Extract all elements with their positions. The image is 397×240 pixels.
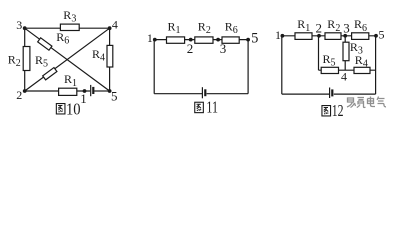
node 5 junction dot (circuit 1) <box>108 89 112 93</box>
battery long plate (circuit 1) <box>90 85 92 96</box>
wire right edge node5 down (circuit 3) <box>375 36 377 94</box>
resistor R6 (circuit 2) <box>222 37 239 43</box>
resistor R3 (circuit 1 top) <box>60 24 79 30</box>
resistor R2 (circuit 3) <box>325 33 341 40</box>
wire diagonal node3 to node5 (circuit 1) <box>25 28 110 91</box>
watermark 易觅电气 (grey) <box>347 97 386 108</box>
battery short plate (circuit 3) <box>331 89 333 96</box>
node 1 junction dot (circuit 3) <box>281 34 285 38</box>
svg-text:5: 5 <box>379 28 385 42</box>
resistor R5 (circuit 1 diagonal 2-4) <box>43 68 57 80</box>
wire bottom node2 to battery (circuit 1) <box>25 90 90 92</box>
wire left edge node1 down (circuit 3) <box>281 36 283 94</box>
node 3 junction dot (circuit 2) <box>216 38 220 42</box>
wire middle row node2 branch to node5 branch (circuit 3) <box>319 69 376 71</box>
node 2 junction dot (circuit 1) <box>23 89 27 93</box>
node 2 junction dot (circuit 3) <box>317 34 321 38</box>
resistor R6 (circuit 1 diagonal 3-5) <box>38 38 52 50</box>
wire right edge node4 to node5 (circuit 1) <box>109 28 111 91</box>
resistor R4 (circuit 1 right) <box>107 45 113 67</box>
battery long plate (circuit 3) <box>329 88 331 99</box>
svg-text:3: 3 <box>16 18 22 32</box>
node 1 junction dot (circuit 2) <box>153 38 157 42</box>
svg-text:2: 2 <box>316 20 323 35</box>
wire node3 down to R3 (circuit 3) <box>344 36 346 43</box>
battery short plate (circuit 2) <box>204 89 206 96</box>
caption 图12 (circuit 3) <box>322 101 344 120</box>
svg-text:12: 12 <box>332 101 344 120</box>
wire diagonal node2 to node4 (circuit 1) <box>25 28 110 91</box>
svg-text:5: 5 <box>111 88 118 103</box>
svg-text:3: 3 <box>220 41 227 56</box>
node 4 junction dot (circuit 1) <box>108 26 112 30</box>
resistor R3 vertical (circuit 3) <box>343 42 349 61</box>
caption 图10 (circuit 1) <box>56 100 80 119</box>
node 2 junction dot (circuit 2) <box>189 38 193 42</box>
battery long plate (circuit 2) <box>201 87 203 98</box>
wire top edge node1 to node5 (circuit 3) <box>282 35 376 37</box>
node 3 junction dot (circuit 3) <box>343 34 347 38</box>
resistor R1 (circuit 1 bottom) <box>59 88 77 95</box>
svg-text:4: 4 <box>341 69 347 83</box>
wire top edge node3 to node4 (circuit 1) <box>25 27 110 29</box>
wire bottom battery to right (circuit 2) <box>207 93 249 95</box>
caption 图11 (circuit 2) <box>195 97 218 116</box>
watermark char 易 <box>347 98 356 108</box>
svg-text:5: 5 <box>251 31 258 47</box>
wire left edge node3 to node2 (circuit 1) <box>24 28 26 91</box>
wire node2 down to middle row (circuit 3) <box>318 36 320 70</box>
resistor R1 (circuit 2) <box>167 37 185 43</box>
resistor R4 (circuit 3 middle row) <box>354 67 370 73</box>
svg-text:3: 3 <box>343 20 350 35</box>
svg-text:11: 11 <box>206 97 218 116</box>
node 5 junction dot (circuit 2) <box>246 38 250 42</box>
resistor R2 (circuit 1 left) <box>23 47 30 71</box>
wire bottom left to battery (circuit 3) <box>282 93 329 95</box>
svg-text:1: 1 <box>275 28 281 42</box>
wire left edge node1 down (circuit 2) <box>153 40 155 94</box>
wire top edge node1 to node5 (circuit 2) <box>154 39 248 41</box>
node 1 junction dot (circuit 1) <box>83 89 87 93</box>
resistor R6 (circuit 3) <box>352 33 369 40</box>
watermark char 觅 <box>357 98 366 108</box>
svg-text:10: 10 <box>66 100 81 119</box>
wire bottom battery to node5 (circuit 1) <box>94 90 109 92</box>
wire bottom left to battery (circuit 2) <box>154 93 202 95</box>
watermark char 电 <box>368 97 376 107</box>
svg-text:2: 2 <box>16 88 22 102</box>
resistor R1 (circuit 3) <box>295 33 312 40</box>
svg-text:4: 4 <box>112 18 118 32</box>
svg-text:1: 1 <box>147 31 153 45</box>
svg-text:2: 2 <box>187 41 194 56</box>
wire bottom battery to right (circuit 3) <box>334 93 376 95</box>
node 3 junction dot (circuit 1) <box>23 26 27 30</box>
node 5 junction dot (circuit 3) <box>374 34 378 38</box>
watermark char 气 <box>377 97 386 107</box>
wire right edge node5 down (circuit 2) <box>247 40 249 94</box>
resistor R5 (circuit 3 middle row) <box>321 67 338 73</box>
svg-text:1: 1 <box>80 91 87 106</box>
resistor R2 (circuit 2) <box>195 37 213 43</box>
battery short plate (circuit 1) <box>92 87 94 94</box>
wire R3 down to node4 (circuit 3) <box>344 61 346 71</box>
